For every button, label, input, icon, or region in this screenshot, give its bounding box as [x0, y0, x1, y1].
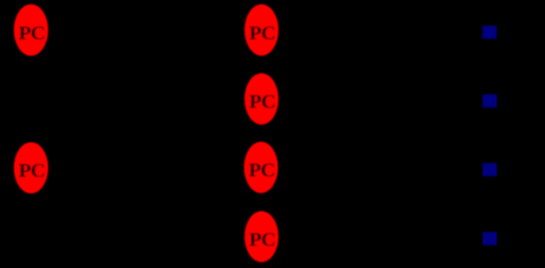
node PC left-1 — [14, 4, 48, 56]
node PC mid-4 — [245, 211, 279, 262]
svg-text:PC: PC — [19, 22, 45, 44]
svg-text:PC: PC — [249, 229, 275, 251]
svg-text:PC: PC — [249, 91, 275, 113]
svg-text:PC: PC — [19, 160, 45, 182]
switch icon 1 — [482, 25, 496, 39]
switch icon 2 — [483, 94, 497, 108]
node PC mid-3 — [244, 142, 278, 193]
switch icon 3 — [483, 163, 497, 177]
svg-text:PC: PC — [249, 22, 275, 44]
node PC mid-2 — [245, 73, 279, 124]
svg-text:PC: PC — [249, 160, 275, 182]
node PC left-2 — [14, 142, 48, 193]
node PC mid-1 — [245, 4, 279, 55]
switch icon 4 — [483, 232, 497, 246]
